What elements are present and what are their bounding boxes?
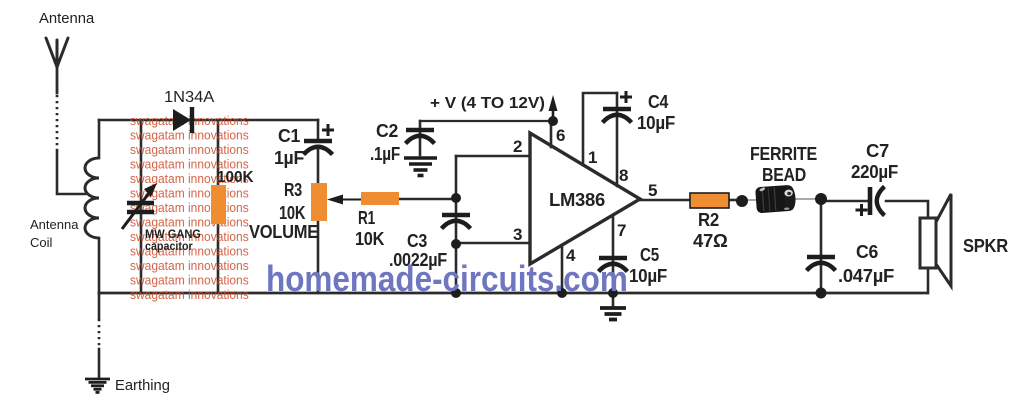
wiper arrow to R3	[327, 195, 361, 205]
wire top rail from coil to C1 corner	[99, 119, 318, 122]
wire antenna vertical solid upper	[56, 64, 59, 93]
wire C1 corner drop	[317, 120, 320, 140]
supply rail	[420, 120, 553, 122]
ground symbol earthing	[85, 379, 110, 392]
wire earthing drop solid	[98, 293, 101, 319]
wire junction to C7	[821, 200, 868, 203]
svg-text:.047µF: .047µF	[838, 265, 894, 286]
capacitor C6	[807, 257, 836, 271]
svg-text:Antenna: Antenna	[39, 10, 95, 27]
svg-text:C6: C6	[856, 242, 878, 262]
wire C2 drop	[419, 121, 422, 155]
wire thin bead to junction	[793, 198, 821, 200]
antenna coil L1	[85, 158, 99, 238]
wire pin3	[456, 242, 530, 245]
svg-text:.1µF: .1µF	[370, 144, 400, 165]
svg-text:SPKR: SPKR	[963, 235, 1009, 256]
svg-text:10K: 10K	[355, 228, 385, 249]
wire coil top stub	[98, 120, 101, 158]
svg-text:1N34A: 1N34A	[164, 89, 215, 105]
svg-text:swagatam innovations: swagatam innovations	[130, 287, 249, 302]
MW gang variable capacitor	[122, 183, 157, 229]
node dot C6 rail	[816, 288, 827, 299]
node dot after R2	[736, 195, 748, 207]
svg-text:FERRITE: FERRITE	[750, 143, 817, 164]
capacitor C2	[406, 130, 435, 144]
wire antenna dotted segment	[56, 95, 59, 149]
resistor R1 10K	[361, 192, 399, 205]
svg-text:swagatam innovations: swagatam innovations	[130, 215, 249, 230]
wire pin8 C4 branch	[616, 93, 619, 186]
svg-text:2: 2	[513, 137, 522, 156]
ground below C2	[404, 158, 437, 176]
svg-text:5: 5	[648, 181, 657, 200]
wire C7 to speaker	[886, 201, 928, 219]
svg-text:3: 3	[513, 225, 522, 244]
supply arrow up	[549, 95, 558, 121]
wire R1 to C3 node	[398, 198, 456, 201]
svg-text:7: 7	[617, 221, 626, 240]
wire R2 to junction	[729, 199, 742, 202]
svg-text:C4: C4	[648, 91, 669, 112]
wire output pin5 to R2	[640, 199, 690, 202]
svg-text:BEAD: BEAD	[762, 164, 806, 185]
wire coil bottom to ground rail	[98, 238, 101, 294]
svg-text:homemade-circuits.com: homemade-circuits.com	[266, 259, 628, 299]
speaker SPKR	[920, 194, 951, 286]
svg-text:R2: R2	[698, 209, 719, 230]
wire earthing lower	[98, 349, 101, 378]
capacitor C1	[304, 124, 335, 155]
svg-text:10µF: 10µF	[637, 112, 675, 133]
wire earthing dotted	[98, 319, 101, 349]
wire pin2	[456, 155, 530, 158]
svg-text:Coil: Coil	[30, 235, 53, 250]
svg-text:C7: C7	[866, 140, 889, 161]
wire speaker bottom	[927, 266, 930, 293]
svg-text:swagatam innovations: swagatam innovations	[130, 273, 249, 288]
wire pin1 up and over	[583, 93, 617, 165]
diode 1N34A	[173, 107, 192, 133]
wire antenna to coil tap	[57, 150, 85, 194]
node dot C3 top	[451, 193, 461, 203]
svg-text:1µF: 1µF	[274, 148, 304, 168]
node dot pin4 rail	[557, 288, 567, 298]
wire C3 vertical branch	[455, 156, 458, 293]
ground below C5	[600, 308, 626, 320]
svg-text:+ V (4 TO 12V): + V (4 TO 12V)	[430, 95, 545, 112]
svg-text:R3: R3	[284, 179, 302, 200]
svg-text:47Ω: 47Ω	[693, 230, 728, 251]
capacitor C4	[603, 91, 633, 123]
svg-text:220µF: 220µF	[851, 161, 898, 182]
svg-text:C5: C5	[640, 245, 659, 266]
svg-text:R1: R1	[358, 208, 375, 228]
wire C5 ground stem	[612, 293, 615, 307]
svg-text:100K: 100K	[217, 169, 254, 186]
svg-text:10µF: 10µF	[629, 265, 667, 286]
wire pin6	[550, 121, 553, 147]
wire thin junction to bead	[742, 199, 757, 201]
op-amp U1 LM386 triangle	[530, 133, 640, 264]
capacitor C3	[442, 215, 471, 229]
potentiometer R3 10K	[311, 183, 327, 221]
wire pin4	[561, 245, 564, 293]
svg-text:LM386: LM386	[549, 189, 605, 210]
wire MW gang branch	[140, 120, 143, 293]
wire 100K branch	[217, 120, 220, 293]
wire pin7 to C5 to rail	[612, 216, 615, 293]
ferrite bead	[755, 185, 796, 214]
capacitor C5	[599, 258, 628, 272]
node dot C3 bottom	[451, 239, 461, 249]
antenna	[46, 38, 68, 67]
svg-text:6: 6	[556, 126, 565, 145]
svg-text:capacitor: capacitor	[145, 241, 193, 254]
resistor 100K	[211, 185, 226, 224]
node dot C3 rail	[451, 288, 461, 298]
node dot after bead	[815, 193, 827, 205]
svg-text:Earthing: Earthing	[115, 378, 170, 394]
svg-text:C2: C2	[376, 121, 398, 141]
watermark swagatam innovations column	[130, 113, 249, 302]
wire C1 to R3 to rail	[317, 150, 320, 293]
capacitor C7	[856, 187, 885, 217]
svg-text:swagatam innovations: swagatam innovations	[130, 258, 249, 273]
node dot C5 rail	[608, 288, 618, 298]
svg-text:Antenna: Antenna	[30, 217, 79, 232]
svg-text:8: 8	[619, 166, 628, 185]
svg-text:C1: C1	[278, 126, 300, 146]
svg-text:MW GANG: MW GANG	[145, 229, 201, 241]
wire C6 branch	[820, 201, 823, 293]
node dot supply/pin6	[548, 116, 558, 126]
svg-text:swagatam innovations: swagatam innovations	[130, 128, 249, 143]
svg-text:1: 1	[588, 148, 597, 167]
ground rail bottom	[99, 292, 927, 295]
svg-text:swagatam innovations: swagatam innovations	[130, 142, 249, 157]
resistor R2 47ohm	[690, 193, 729, 208]
svg-text:VOLUME: VOLUME	[249, 221, 318, 242]
